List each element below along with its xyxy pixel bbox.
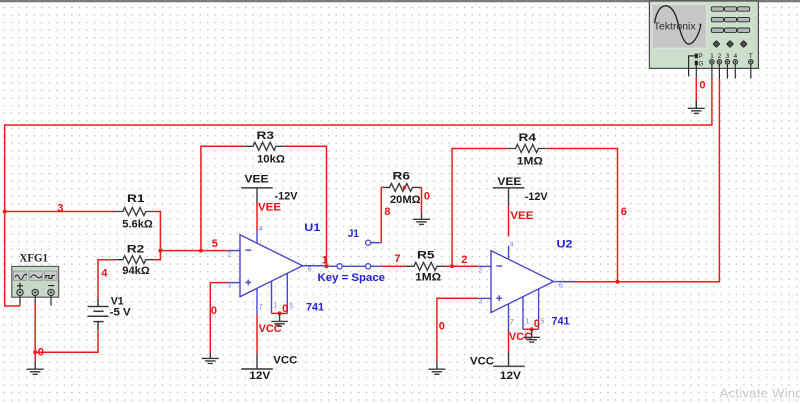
U1 pin stubs [228, 230, 325, 315]
wire node7 J1 to R5 [381, 265, 405, 267]
wire U1 non-inverting input to ground [210, 283, 227, 353]
svg-text:P: P [698, 53, 703, 60]
svg-text:2: 2 [227, 252, 231, 259]
wire node1 at U1 output [325, 265, 329, 267]
svg-text:3: 3 [227, 283, 231, 290]
wire U2 pin7 to VCC supply [508, 329, 510, 351]
ground U1 offset null [271, 313, 288, 326]
ground U2 non-inverting [428, 361, 445, 374]
svg-text:7: 7 [510, 319, 514, 326]
svg-text:4: 4 [510, 241, 514, 248]
wire scope G terminal to ground [695, 77, 697, 100]
svg-text:4: 4 [259, 226, 263, 233]
svg-text:6: 6 [621, 206, 627, 218]
svg-text:2: 2 [478, 267, 482, 274]
svg-text:1: 1 [322, 255, 328, 267]
svg-text:3: 3 [57, 202, 63, 214]
scope screen [652, 4, 707, 48]
wire VEE supply to U1 pin4 [256, 203, 258, 231]
svg-text:G: G [698, 60, 703, 67]
ground U2 offset null [523, 329, 540, 342]
svg-text:VCC: VCC [259, 323, 282, 335]
op-amp U1 triangle [240, 235, 303, 297]
wire U1 pin7 to VCC supply [256, 315, 258, 354]
resistor R2 [115, 256, 154, 264]
svg-text:0: 0 [424, 191, 430, 203]
svg-text:7: 7 [259, 304, 263, 311]
junction U1 offset tie [278, 311, 282, 315]
wire node2 R5 right to U2 inverting input [445, 265, 479, 267]
svg-text:J1: J1 [348, 228, 359, 240]
VCC U2 stub [508, 351, 510, 366]
svg-text:8: 8 [384, 206, 390, 218]
scope screen sine trace [655, 6, 701, 44]
VCC U1 stub [256, 354, 258, 370]
svg-text:VEE: VEE [497, 176, 521, 188]
scope P G pins [695, 54, 698, 59]
junction node6 [616, 280, 620, 284]
svg-text:0: 0 [699, 80, 705, 92]
svg-text:10kΩ: 10kΩ [257, 153, 285, 165]
U2 input polarity marks [496, 266, 502, 301]
XFG1 terminals [17, 289, 23, 295]
svg-text:12V: 12V [500, 370, 522, 382]
svg-text:1: 1 [273, 303, 277, 310]
svg-text:VEE: VEE [258, 202, 281, 214]
wire R4 feedback left leg [452, 149, 507, 267]
resistor R1 [115, 208, 154, 216]
wire node3 branch to R1 left [5, 211, 115, 213]
wire node5 horizontal to U1 inverting input [160, 250, 227, 252]
wire VEE supply to U2 pin4 [508, 205, 510, 237]
wire J1 throw up to R6 left [381, 187, 383, 242]
wire U1 offset null pins 1-5 tie [272, 312, 288, 314]
svg-text:1: 1 [526, 319, 530, 326]
svg-text:VCC: VCC [273, 354, 297, 366]
svg-text:0: 0 [534, 318, 540, 330]
ground XFG1 [27, 361, 44, 374]
VCC supply bar U2 [493, 365, 525, 367]
svg-text:6: 6 [559, 282, 563, 289]
svg-text:VEE: VEE [510, 210, 533, 222]
svg-text:Key = Space: Key = Space [318, 272, 386, 284]
svg-text:5.6kΩ: 5.6kΩ [122, 218, 153, 230]
ground U1 non-inverting [202, 353, 219, 364]
resistor R3 [245, 142, 284, 150]
ground R6 [413, 213, 430, 225]
VEE U2 stub [508, 188, 510, 205]
svg-text:R4: R4 [519, 132, 538, 144]
svg-text:U2: U2 [557, 239, 573, 251]
scope terminals [710, 60, 753, 65]
ground scope [688, 101, 705, 114]
svg-text:2: 2 [461, 254, 467, 266]
svg-text:0: 0 [282, 303, 288, 315]
U2 pin stubs [479, 246, 576, 331]
svg-text:-5 V: -5 V [110, 307, 132, 319]
wire node6 U2 output to scope ch2 [563, 79, 720, 282]
junction on R6 [403, 186, 407, 190]
svg-text:1MΩ: 1MΩ [517, 155, 543, 167]
svg-text:741: 741 [306, 302, 324, 314]
svg-text:7: 7 [394, 253, 400, 265]
svg-text:0: 0 [439, 320, 445, 332]
svg-text:6: 6 [308, 267, 312, 274]
switch J1 [329, 243, 382, 267]
scope terminal stubs [712, 64, 751, 78]
svg-text:5: 5 [289, 303, 293, 310]
svg-text:4: 4 [101, 268, 108, 280]
svg-text:Activate Windows: Activate Windows [720, 386, 800, 401]
svg-text:Tektronix: Tektronix [654, 21, 697, 32]
svg-text:R5: R5 [417, 250, 435, 262]
wire U2 non-inverting input to ground [437, 298, 479, 361]
wire U2 offset null pins 1-5 tie [523, 328, 539, 330]
XFG1 terminal stubs [20, 296, 51, 306]
wire XFG1 common to ground and battery bottom [34, 304, 36, 361]
svg-text:R6: R6 [393, 170, 411, 182]
svg-text:R2: R2 [127, 244, 145, 256]
op-amp U2 triangle [491, 251, 554, 313]
junction node5 under R3 [199, 249, 203, 253]
scope G wire black parts [695, 65, 697, 108]
wire R1 right to node5 junction [154, 212, 161, 251]
junction node2 [450, 264, 454, 268]
svg-text:94kΩ: 94kΩ [122, 265, 150, 277]
resistor R5 [406, 262, 445, 270]
svg-text:5: 5 [540, 319, 544, 326]
junction node1 [325, 264, 329, 268]
battery V1 [88, 298, 109, 329]
wire R2 right up to node5 junction [154, 251, 161, 260]
scope knobs [713, 40, 747, 47]
svg-text:1MΩ: 1MΩ [415, 272, 441, 284]
svg-text:0: 0 [38, 346, 44, 358]
svg-text:-12V: -12V [525, 191, 549, 203]
wire R6 right down to ground [421, 187, 423, 212]
svg-text:741: 741 [552, 316, 570, 328]
junction node5 left [158, 249, 162, 253]
junction U2 offset tie [530, 327, 534, 331]
svg-text:VEE: VEE [245, 174, 269, 186]
svg-text:U1: U1 [304, 222, 320, 234]
wire node4 R2 left to battery V1 top [98, 260, 115, 299]
VCC supply bar U1 [241, 368, 273, 370]
oscilloscope XSC1 Tektronix body [649, 1, 758, 68]
VEE U1 stub [256, 188, 258, 203]
resistor R6 [383, 183, 422, 191]
VEE supply bar U2 [493, 187, 525, 189]
svg-text:20MΩ: 20MΩ [390, 194, 421, 206]
function generator XFG1 body [12, 266, 59, 297]
svg-text:12V: 12V [249, 370, 271, 382]
svg-text:5: 5 [212, 238, 218, 250]
VEE supply bar U1 [241, 187, 273, 189]
resistor R4 [507, 145, 546, 153]
wire R4 feedback right leg down to node6 [547, 149, 618, 282]
svg-text:VCC: VCC [470, 356, 494, 368]
scope buttons [711, 7, 749, 33]
XFG1 plus terminal mark [17, 283, 23, 289]
U1 input polarity marks [245, 250, 251, 285]
wire R3 feedback right leg down to node1 [284, 146, 326, 266]
svg-text:XFG1: XFG1 [20, 253, 49, 265]
XFG1 minus terminal mark [48, 285, 54, 287]
svg-text:R1: R1 [127, 193, 145, 205]
svg-text:0: 0 [211, 305, 217, 317]
svg-text:3: 3 [478, 299, 482, 306]
junction node3 on left rail [3, 210, 7, 214]
junction node0 at XFG1 ground [33, 350, 37, 354]
wire top rail net3 from scope ch1 down-left and to XFG1 + [5, 77, 712, 306]
wire R3 feedback left leg [201, 146, 245, 250]
scope P probe wire [689, 56, 695, 77]
svg-text:R3: R3 [257, 130, 275, 142]
